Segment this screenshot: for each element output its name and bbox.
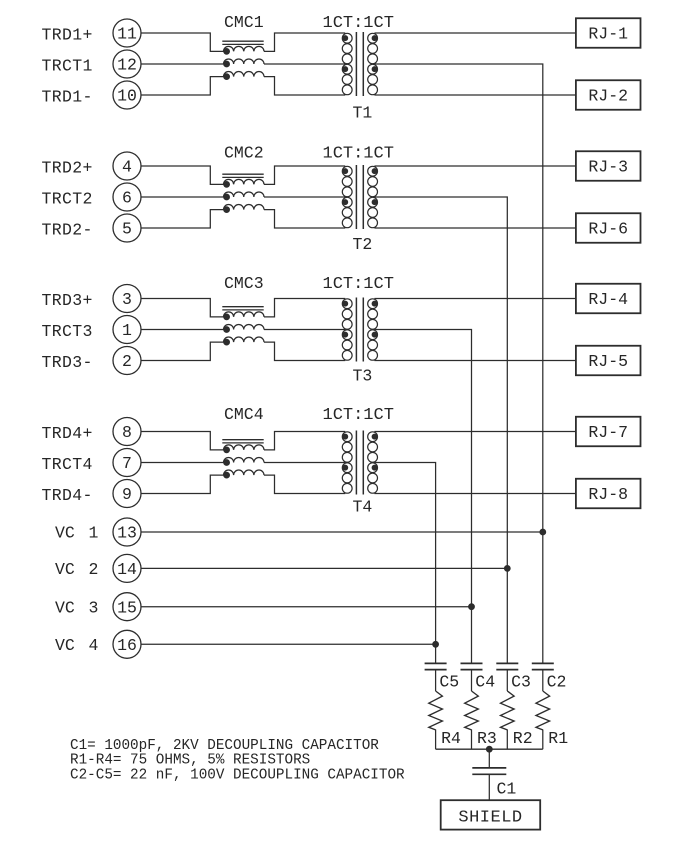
- T2 core line 2: [362, 165, 364, 229]
- svg-text:RJ-4: RJ-4: [588, 290, 628, 309]
- svg-text:CMC2: CMC2: [224, 144, 264, 163]
- wire T4 secondary top to RJ-7: [374, 431, 576, 433]
- T4 primary winding lower half: [342, 463, 352, 473]
- wire T4 secondary center tap to capacitor bus: [374, 463, 435, 664]
- CMC1 top winding: [224, 46, 265, 51]
- wire pin 13 to capacitor bus: [141, 531, 543, 533]
- T1 primary lower polarity dot: [343, 67, 348, 72]
- junction VC 1 bus: [540, 529, 546, 535]
- svg-text:RJ-1: RJ-1: [588, 25, 628, 44]
- R3 zigzag body: [465, 691, 479, 730]
- wire pin 7 to CMC4 middle winding: [141, 462, 224, 464]
- wire pin 12 to CMC1 middle winding: [141, 63, 224, 65]
- T1 core line 1: [355, 32, 357, 96]
- CMC1 middle winding: [224, 59, 265, 64]
- T2 secondary upper polarity dot: [372, 169, 377, 174]
- svg-text:T2: T2: [353, 235, 373, 254]
- CMC2 top winding: [224, 179, 265, 184]
- wire T1 secondary center tap to capacitor bus: [374, 64, 542, 663]
- svg-text:TRD4+: TRD4+: [42, 424, 93, 443]
- svg-text:13: 13: [117, 524, 137, 543]
- CMC2 top winding polarity dot: [224, 182, 230, 188]
- wire C2 to R1: [542, 670, 544, 691]
- CMC4 core line 1: [222, 439, 263, 441]
- svg-text:TRCT3: TRCT3: [42, 322, 93, 341]
- T1 primary upper polarity dot: [343, 36, 348, 41]
- svg-text:11: 11: [117, 25, 137, 44]
- svg-text:SHIELD: SHIELD: [458, 808, 522, 827]
- pin 4: [113, 152, 141, 180]
- wire R4 to shield rail: [435, 730, 437, 750]
- svg-text:RJ-2: RJ-2: [588, 87, 628, 106]
- T2 secondary winding upper half: [368, 166, 378, 176]
- T4 secondary winding upper half: [368, 432, 378, 442]
- svg-text:16: 16: [117, 636, 137, 655]
- T4 primary upper polarity dot: [343, 434, 348, 439]
- T3 secondary lower polarity dot: [372, 332, 377, 337]
- wire R2 to shield rail: [506, 730, 508, 750]
- svg-text:TRD1-: TRD1-: [42, 88, 93, 107]
- wire CMC4 to T4 primary center tap: [264, 462, 345, 464]
- svg-text:14: 14: [117, 560, 137, 579]
- svg-text:3: 3: [122, 290, 132, 309]
- svg-text:RJ-8: RJ-8: [588, 485, 628, 504]
- svg-text:TRCT1: TRCT1: [42, 57, 93, 76]
- wire pin 1 to CMC3 middle winding: [141, 329, 224, 331]
- CMC2 core line 1: [222, 173, 263, 175]
- svg-text:6: 6: [122, 189, 132, 208]
- svg-text:TRD1+: TRD1+: [42, 26, 93, 45]
- CMC3 bottom winding: [224, 337, 265, 342]
- wire CMC2 to T2 primary bottom: [264, 210, 345, 228]
- svg-text:C3: C3: [511, 672, 531, 691]
- T4 secondary upper polarity dot: [372, 434, 377, 439]
- T4 core line 2: [362, 431, 364, 495]
- connector RJ-8: [576, 479, 641, 509]
- C2 top plate: [532, 662, 554, 664]
- wire pin 9 to CMC4 bottom winding: [141, 475, 224, 493]
- T3 primary winding lower half: [342, 330, 352, 340]
- wire CMC2 to T2 primary top: [264, 166, 345, 184]
- CMC2 bottom winding: [224, 205, 265, 210]
- wire pin 2 to CMC3 bottom winding: [141, 342, 224, 360]
- wire CMC4 to T4 primary top: [264, 432, 345, 450]
- CMC3 core line 1: [222, 306, 263, 308]
- svg-text:1: 1: [89, 524, 99, 543]
- CMC4 middle winding: [224, 457, 265, 462]
- CMC2 middle winding: [224, 192, 265, 197]
- svg-text:T1: T1: [353, 103, 373, 122]
- wire T2 secondary bottom to RJ-6: [374, 227, 576, 229]
- connector RJ-3: [576, 151, 641, 181]
- svg-text:VC: VC: [55, 636, 75, 655]
- R2 zigzag body: [500, 691, 514, 730]
- svg-text:9: 9: [122, 485, 132, 504]
- svg-text:R1: R1: [548, 729, 568, 748]
- svg-text:4: 4: [122, 158, 132, 177]
- svg-text:VC: VC: [55, 524, 75, 543]
- junction VC 2 bus: [504, 566, 510, 572]
- svg-text:TRD3-: TRD3-: [42, 353, 93, 372]
- wire pin 16 to capacitor bus: [141, 643, 436, 645]
- wire C5 to R4: [435, 670, 437, 691]
- wire CMC2 to T2 primary center tap: [264, 196, 345, 198]
- svg-text:T3: T3: [353, 367, 373, 386]
- svg-text:5: 5: [122, 220, 132, 239]
- svg-text:12: 12: [117, 56, 137, 75]
- wire CMC3 to T3 primary center tap: [264, 329, 345, 331]
- T2 primary winding lower half: [342, 197, 352, 207]
- svg-text:1CT:1CT: 1CT:1CT: [323, 145, 394, 164]
- svg-text:RJ-6: RJ-6: [588, 220, 628, 239]
- pin 12: [113, 50, 141, 78]
- wire C3 to R2: [506, 670, 508, 691]
- wire pin 14 to capacitor bus: [141, 567, 507, 569]
- T2 core line 1: [355, 165, 357, 229]
- T4 secondary winding lower half: [368, 463, 378, 473]
- CMC1 bottom winding polarity dot: [224, 74, 230, 80]
- svg-text:C2-C5= 22 nF, 100V DECOUPLING: C2-C5= 22 nF, 100V DECOUPLING CAPACITOR: [70, 768, 405, 784]
- CMC3 bottom winding polarity dot: [224, 339, 230, 345]
- svg-text:1CT:1CT: 1CT:1CT: [323, 406, 394, 425]
- svg-text:4: 4: [89, 636, 99, 655]
- CMC2 bottom winding polarity dot: [224, 207, 230, 213]
- svg-text:RJ-3: RJ-3: [588, 158, 628, 177]
- CMC4 core line 2: [222, 442, 263, 444]
- junction VC 3 bus: [469, 604, 475, 610]
- pin 5: [113, 214, 141, 242]
- T1 core line 2: [362, 32, 364, 96]
- svg-text:1CT:1CT: 1CT:1CT: [323, 275, 394, 294]
- wire pin 8 to CMC4 top winding: [141, 432, 224, 450]
- CMC3 middle winding: [224, 324, 265, 329]
- svg-text:RJ-5: RJ-5: [588, 352, 628, 371]
- T4 primary lower polarity dot: [343, 465, 348, 470]
- CMC1 top winding polarity dot: [224, 49, 230, 55]
- svg-text:R3: R3: [477, 729, 497, 748]
- wire rail to C1: [488, 749, 490, 767]
- svg-text:RJ-7: RJ-7: [588, 423, 628, 442]
- CMC1 core line 2: [222, 43, 263, 45]
- connector RJ-2: [576, 80, 641, 110]
- connector RJ-4: [576, 284, 641, 314]
- T1 secondary winding lower half: [368, 64, 378, 74]
- pin 11: [113, 19, 141, 47]
- T4 secondary lower polarity dot: [372, 465, 377, 470]
- svg-text:C1: C1: [497, 780, 517, 799]
- wire CMC1 to T1 primary top: [264, 33, 345, 51]
- T4 primary winding upper half: [342, 432, 352, 442]
- C4 bottom plate: [461, 669, 483, 671]
- wire T2 secondary top to RJ-3: [374, 165, 576, 167]
- T3 primary upper polarity dot: [343, 301, 348, 306]
- wire CMC3 to T3 primary bottom: [264, 342, 345, 360]
- junction VC 4 bus: [433, 641, 439, 647]
- connector RJ-5: [576, 346, 641, 376]
- svg-text:2: 2: [89, 560, 99, 579]
- T2 primary winding upper half: [342, 166, 352, 176]
- svg-text:TRCT4: TRCT4: [42, 455, 93, 474]
- CMC1 middle winding polarity dot: [224, 61, 230, 67]
- T1 primary winding upper half: [342, 33, 352, 43]
- CMC1 bottom winding: [224, 72, 265, 77]
- wire C1 to SHIELD: [488, 774, 490, 800]
- svg-text:TRD2-: TRD2-: [42, 221, 93, 240]
- T1 primary winding lower half: [342, 64, 352, 74]
- svg-text:VC: VC: [55, 598, 75, 617]
- pin 3: [113, 285, 141, 313]
- wire T2 secondary center tap to capacitor bus: [374, 197, 507, 663]
- svg-text:15: 15: [117, 598, 137, 617]
- CMC4 middle winding polarity dot: [224, 460, 230, 466]
- T1 secondary winding upper half: [368, 33, 378, 43]
- svg-text:CMC4: CMC4: [224, 405, 264, 424]
- C5 top plate: [425, 662, 447, 664]
- wire pin 3 to CMC3 top winding: [141, 299, 224, 317]
- svg-text:TRD3+: TRD3+: [42, 291, 93, 310]
- connector RJ-6: [576, 213, 641, 243]
- T2 secondary winding lower half: [368, 197, 378, 207]
- CMC1 core line 1: [222, 40, 263, 42]
- T3 secondary winding upper half: [368, 299, 378, 309]
- svg-text:C5: C5: [439, 672, 459, 691]
- wire CMC1 to T1 primary center tap: [264, 63, 345, 65]
- svg-text:2: 2: [122, 352, 132, 371]
- CMC4 top winding polarity dot: [224, 447, 230, 453]
- wire pin 15 to capacitor bus: [141, 606, 472, 608]
- pin 7: [113, 449, 141, 477]
- wire pin 4 to CMC2 top winding: [141, 166, 224, 184]
- svg-text:10: 10: [117, 87, 137, 106]
- T2 secondary lower polarity dot: [372, 200, 377, 205]
- svg-text:T4: T4: [353, 498, 373, 517]
- C4 top plate: [461, 662, 483, 664]
- wire T1 secondary bottom to RJ-2: [374, 94, 576, 96]
- svg-text:TRD4-: TRD4-: [42, 486, 93, 505]
- shield terminal SHIELD: [441, 800, 541, 829]
- CMC4 bottom winding: [224, 470, 265, 475]
- pin 16: [113, 630, 141, 658]
- C5 bottom plate: [425, 669, 447, 671]
- T4 core line 1: [355, 431, 357, 495]
- wire pin 6 to CMC2 middle winding: [141, 196, 224, 198]
- pin 10: [113, 81, 141, 109]
- connector RJ-1: [576, 18, 641, 48]
- wire CMC1 to T1 primary bottom: [264, 77, 345, 95]
- T3 secondary winding lower half: [368, 330, 378, 340]
- T3 primary winding upper half: [342, 299, 352, 309]
- pin 6: [113, 183, 141, 211]
- C3 top plate: [496, 662, 518, 664]
- T3 core line 1: [355, 298, 357, 362]
- C1 top plate: [472, 767, 506, 769]
- pin 1: [113, 316, 141, 344]
- svg-text:VC: VC: [55, 560, 75, 579]
- pin 9: [113, 480, 141, 508]
- CMC3 top winding polarity dot: [224, 314, 230, 320]
- C2 bottom plate: [532, 669, 554, 671]
- wire T4 secondary bottom to RJ-8: [374, 493, 576, 495]
- pin 13: [113, 518, 141, 546]
- R4 zigzag body: [429, 691, 443, 730]
- CMC4 top winding: [224, 445, 265, 450]
- T1 secondary lower polarity dot: [372, 67, 377, 72]
- wire shield rail: [436, 748, 543, 750]
- T2 primary lower polarity dot: [343, 200, 348, 205]
- wire T3 secondary center tap to capacitor bus: [374, 330, 471, 664]
- T3 primary lower polarity dot: [343, 332, 348, 337]
- svg-text:1CT:1CT: 1CT:1CT: [323, 14, 394, 33]
- svg-text:C2: C2: [547, 672, 567, 691]
- svg-text:3: 3: [89, 598, 99, 617]
- svg-text:TRD2+: TRD2+: [42, 159, 93, 178]
- CMC3 core line 2: [222, 309, 263, 311]
- wire C4 to R3: [471, 670, 473, 691]
- wire CMC4 to T4 primary bottom: [264, 475, 345, 493]
- svg-text:R2: R2: [513, 729, 533, 748]
- T2 primary upper polarity dot: [343, 169, 348, 174]
- pin 8: [113, 418, 141, 446]
- svg-text:CMC3: CMC3: [224, 274, 264, 293]
- C3 bottom plate: [496, 669, 518, 671]
- R1 zigzag body: [536, 691, 550, 730]
- CMC3 middle winding polarity dot: [224, 327, 230, 333]
- wire pin 5 to CMC2 bottom winding: [141, 210, 224, 228]
- pin 2: [113, 347, 141, 375]
- wire T1 secondary top to RJ-1: [374, 32, 576, 34]
- svg-text:TRCT2: TRCT2: [42, 190, 93, 209]
- wire CMC3 to T3 primary top: [264, 299, 345, 317]
- CMC3 top winding: [224, 312, 265, 317]
- wire R1 to shield rail: [542, 730, 544, 750]
- svg-text:8: 8: [122, 423, 132, 442]
- svg-text:CMC1: CMC1: [224, 13, 264, 32]
- svg-text:7: 7: [122, 454, 132, 473]
- svg-text:R4: R4: [441, 729, 461, 748]
- CMC2 middle winding polarity dot: [224, 194, 230, 200]
- svg-text:R1-R4= 75 OHMS, 5% RESISTORS: R1-R4= 75 OHMS, 5% RESISTORS: [70, 752, 310, 768]
- wire R3 to shield rail: [471, 730, 473, 750]
- T1 secondary upper polarity dot: [372, 36, 377, 41]
- wire T3 secondary top to RJ-4: [374, 298, 576, 300]
- pin 15: [113, 593, 141, 621]
- T3 core line 2: [362, 298, 364, 362]
- junction shield rail / C1: [486, 746, 492, 752]
- pin 14: [113, 554, 141, 582]
- svg-text:1: 1: [122, 321, 132, 340]
- wire pin 11 to CMC1 top winding: [141, 33, 224, 51]
- wire T3 secondary bottom to RJ-5: [374, 360, 576, 362]
- CMC4 bottom winding polarity dot: [224, 472, 230, 478]
- svg-text:C4: C4: [475, 672, 495, 691]
- connector RJ-7: [576, 417, 641, 447]
- C1 bottom plate: [472, 773, 506, 775]
- T3 secondary upper polarity dot: [372, 301, 377, 306]
- wire pin 10 to CMC1 bottom winding: [141, 77, 224, 95]
- CMC2 core line 2: [222, 176, 263, 178]
